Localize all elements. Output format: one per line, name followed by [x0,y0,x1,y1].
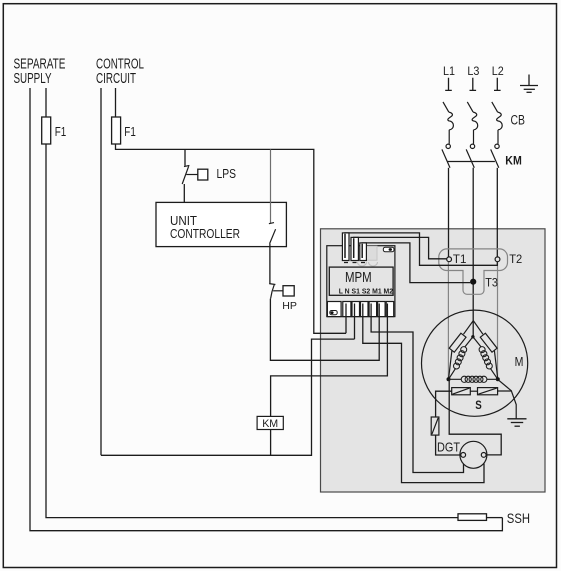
motor winding coil bottom [461,376,487,382]
motor winding lead right [490,368,498,379]
motor winding lead left [449,368,456,379]
module bottom terminal N [352,302,360,317]
wire T1 to motor winding corner (gray) [447,262,449,378]
svg-text:F1: F1 [55,124,66,139]
motor thermal sensor S right [478,388,498,395]
wire N return rail [101,339,355,455]
svg-text:SUPPLY: SUPPLY [14,71,52,87]
switch LPS lower wire [183,184,185,202]
svg-text:T3: T3 [485,278,498,290]
switch HP tick [269,283,275,286]
svg-text:L2: L2 [492,66,504,78]
motor winding coil right [479,347,492,369]
switch LPS branch wire [184,149,186,166]
heater SSH [458,514,487,521]
terminal T1 [447,257,452,262]
terminal T3 (junction dot) [470,279,476,285]
svg-text:MPM: MPM [345,270,372,286]
module top plug terminal 2 [351,237,358,260]
motor protector lead right [494,351,497,380]
gray equipment enclosure [321,229,546,492]
motor star point dot [471,335,474,338]
motor protector element right [480,333,497,352]
svg-text:S: S [475,398,482,412]
motor winding taps from star dot [465,337,481,347]
switch HP actuator link [273,290,283,292]
module top plug terminal 3 [360,243,367,261]
module bottom terminal L [343,302,351,317]
motor delta side left (apex lead) [464,321,474,335]
switch LPS actuator link [186,174,198,176]
module top plug terminal 1 [342,233,349,261]
supply terminal L3 [467,66,479,90]
wire to HP switch [269,244,271,284]
MPM sense wire to T3 [362,243,470,283]
supply terminal L1 [443,66,455,90]
unit controller box U1 [156,202,286,246]
module bottom terminal S1 [361,302,369,317]
label SEPARATE SUPPLY [14,57,66,88]
motor protector lead left [449,351,452,380]
wire T2 to motor winding corner (gray) [497,262,499,378]
motor frame earth diagonal from corner [498,380,511,391]
wire phase L1 to T1 [448,168,450,257]
wire DGT right pin to motor corner [449,379,501,455]
module terminal feet marks [344,262,365,264]
module bottom connector housing [327,302,341,317]
module indicator icon [383,247,394,252]
sensor link wire [470,390,477,392]
switch LPS blade [182,166,189,184]
motor winding corner node left [447,377,451,381]
motor winding corner node right [496,377,500,381]
MPM sense wire to T2 [345,233,497,265]
module top terminal pins [345,234,362,258]
terminal strip outline [439,249,508,294]
svg-text:F1: F1 [124,124,136,139]
module bottom terminal S2 [369,302,377,317]
fuse F1 (separate supply) [42,117,51,144]
unit controller contact upper wire [270,149,272,223]
wire phase L2 to T2 [496,168,498,257]
wire control circuit line 2 upper [115,88,117,117]
svg-text:DGT: DGT [437,440,460,455]
motor thermal sensor S left [452,388,471,395]
svg-text:CONTROLLER: CONTROLLER [170,227,240,241]
svg-text:UNIT: UNIT [170,214,197,228]
svg-text:KM: KM [262,418,278,430]
circuit breaker CB pole 2 [466,102,478,168]
switch LPS tick [184,165,189,166]
svg-text:M: M [515,354,524,369]
wire MPM S1 to DGT [363,317,484,483]
motor winding coil left [454,347,467,369]
motor M body circle [422,310,528,416]
module bottom terminal pins [346,304,387,340]
module bottom terminal M2 [386,302,394,317]
pressure switch HP box [283,286,294,296]
discharge gas thermostat DGT body [460,441,487,468]
wire sensors to PTC [436,391,452,417]
wire KM coil to N rail [270,430,272,456]
fuse F1 (control circuit) [112,117,121,144]
svg-text:L N S1 S2 M1 M2: L N S1 S2 M1 M2 [339,289,393,296]
MPM label plate [329,267,393,295]
label CONTROL CIRCUIT [96,57,144,88]
wire separate supply line 2 lower (to SSH) [46,144,458,518]
wire control L rail [116,144,347,333]
svg-text:SSH: SSH [507,510,530,526]
svg-text:T1: T1 [453,254,467,266]
wire MPM M2 to KM coil [271,317,388,417]
wire PTC to DGT left pin [436,435,461,455]
wire phase L3 to T3 and motor apex [472,168,474,337]
svg-text:CB: CB [511,113,526,128]
wire HP to MPM M1 [270,299,379,361]
svg-text:L3: L3 [467,66,479,78]
circuit breaker CB pole 3 [491,102,503,168]
unit controller contact blade [270,229,276,243]
circuit breaker CB pole 1 [442,102,454,168]
pressure switch LPS box [198,169,208,180]
PTC sensor element [431,417,439,435]
DGT pin left [461,453,466,458]
svg-text:KM: KM [505,153,522,167]
module ghost internals [366,246,378,260]
MPM sense wire to T1 [354,237,447,258]
unit controller contact tick [269,223,274,224]
motor bottom link wires [449,378,498,380]
ground (top right) [520,75,538,93]
svg-text:CIRCUIT: CIRCUIT [96,71,136,87]
DGT pin right [481,453,486,458]
supply terminal L2 [492,66,504,90]
motor protector element left [449,333,466,352]
ground (motor frame) [507,419,526,426]
contactor KM mechanical link [447,161,495,163]
motor frame earth wire [498,391,516,419]
relay module MPM outer body [327,246,395,317]
svg-text:LPS: LPS [217,166,237,181]
wire separate supply line 1 (to SSH return) [30,88,502,531]
svg-text:T2: T2 [509,254,522,266]
wire separate supply line 2 upper [45,88,47,117]
wire control circuit line 1 (N return riser) [100,88,102,455]
svg-text:L1: L1 [443,66,455,78]
switch HP blade [271,285,275,299]
terminal T2 [495,257,500,262]
motor delta side right (apex lead) [473,321,483,335]
contactor coil KM [257,416,283,429]
module bottom terminal M1 [378,302,386,317]
wire MPM S2 to DGT [371,317,463,473]
svg-text:HP: HP [282,300,297,312]
